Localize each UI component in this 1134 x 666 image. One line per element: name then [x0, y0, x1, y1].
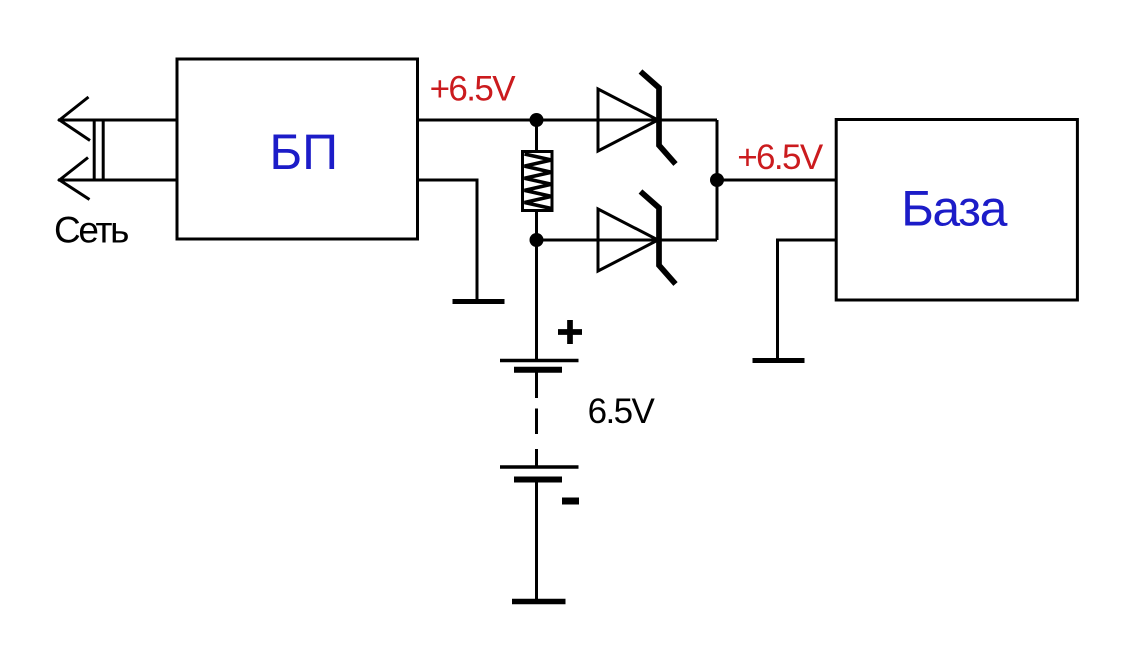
wire top rail: [418, 119, 718, 122]
svg-text:База: База: [901, 180, 1007, 236]
svg-text:+6.5V: +6.5V: [430, 70, 517, 109]
wire battery bottom lead: [535, 481, 538, 600]
svg-text:+6.5V: +6.5V: [737, 138, 824, 177]
ground Base: [753, 358, 805, 363]
wire bottom rail: [537, 239, 718, 242]
wire plug bottom: [58, 179, 177, 182]
junction bottom: [530, 233, 544, 247]
wire to Base: [717, 179, 838, 182]
junction right: [710, 173, 724, 187]
wire right vertical: [716, 120, 719, 240]
resistor R1: [523, 120, 553, 240]
block База: [836, 120, 1077, 301]
wire Base to ground: [778, 240, 838, 359]
svg-text:Сеть: Сеть: [54, 210, 128, 251]
svg-text:6.5V: 6.5V: [588, 392, 656, 431]
mains plug X1: [60, 97, 104, 200]
junction top: [530, 113, 544, 127]
battery GB1: [500, 320, 582, 501]
wire plug top: [58, 119, 177, 122]
svg-text:БП: БП: [269, 124, 338, 180]
block БП: [177, 59, 418, 239]
wire battery top lead: [535, 240, 538, 359]
ground battery: [512, 599, 566, 605]
zener VD1: [598, 72, 676, 165]
ground BP: [453, 299, 505, 304]
wire BP to ground: [418, 180, 478, 299]
zener VD2: [598, 192, 676, 285]
